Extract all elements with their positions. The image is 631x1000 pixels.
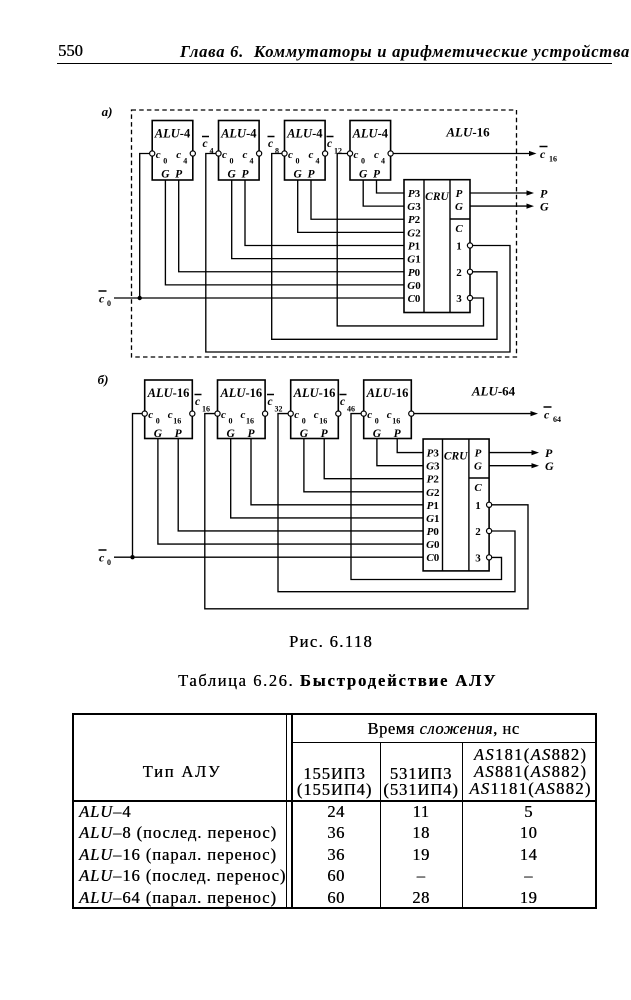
wire U4 G to U5 G3 [363, 180, 404, 206]
svg-text:c: c [222, 149, 227, 161]
node label c8 (inverted carry) [268, 137, 280, 156]
svg-text:ALU-4: ALU-4 [286, 127, 323, 141]
figure a label [102, 104, 113, 119]
svg-text:64: 64 [553, 415, 561, 424]
svg-text:c: c [176, 149, 181, 161]
pin circle c0 input of U1 [150, 151, 155, 156]
svg-text:3: 3 [475, 552, 481, 564]
wire U1 P to U5 P0 [179, 180, 404, 272]
svg-text:ALU-4: ALU-4 [220, 127, 257, 141]
svg-text:c: c [268, 138, 273, 150]
label ALU-64 [471, 384, 516, 399]
pin circle c16 output of U6 [190, 411, 195, 416]
pin label C0 of U5 [408, 293, 421, 305]
svg-text:2: 2 [475, 526, 481, 538]
pin circle c4 output of U4 [388, 151, 393, 156]
table double line 1 [286, 713, 288, 909]
pin label P2 of U5 [408, 214, 421, 226]
pin label G1 of U5 [407, 254, 420, 266]
svg-text:ALU-16: ALU-16 [366, 386, 409, 400]
separator line in U10 right strip [469, 477, 489, 479]
svg-text:0: 0 [361, 157, 365, 166]
label ALU-16 [445, 125, 490, 140]
wire U2 G to U5 G1 [232, 180, 404, 259]
svg-text:G: G [474, 461, 482, 473]
pin label C of U5 [455, 223, 463, 235]
table outer left border [72, 713, 74, 909]
ALU-16 block U9 [364, 380, 412, 440]
pin circle output 2 of U5 [467, 269, 472, 274]
pin label G output of U5 [455, 201, 463, 213]
svg-text:C0: C0 [426, 552, 439, 564]
pin label G1 of U10 [426, 513, 439, 525]
pin label G3 of U5 [407, 201, 421, 213]
pin label P0 of U5 [408, 267, 421, 279]
pin label G3 of U10 [426, 461, 440, 473]
node label c64 [544, 407, 562, 424]
svg-text:CRU: CRU [425, 191, 449, 203]
svg-text:0: 0 [156, 417, 160, 426]
table column line 3|4 [462, 742, 463, 909]
wire U8 P to U10 P2 [324, 439, 423, 479]
table cell: 531IP3 [380, 766, 462, 798]
svg-text:G: G [373, 428, 382, 440]
svg-text:32: 32 [275, 405, 283, 414]
svg-text:1: 1 [456, 241, 462, 253]
svg-text:c: c [221, 409, 226, 421]
svg-text:P0: P0 [427, 526, 440, 538]
svg-text:0: 0 [107, 299, 111, 308]
svg-text:P3: P3 [427, 448, 440, 460]
svg-text:c: c [156, 149, 161, 161]
pin label 2 of U10 [475, 526, 481, 538]
pin circle c0 input of U7 [215, 411, 220, 416]
pin label G2 of U5 [407, 227, 421, 239]
pin circle output 1 of U10 [487, 502, 492, 507]
svg-text:ALU-16: ALU-16 [293, 386, 336, 400]
wire c0 input line to U5 C0 [114, 297, 404, 299]
svg-text:P1: P1 [408, 241, 420, 253]
pin circle output 3 of U5 [467, 295, 472, 300]
svg-text:P: P [175, 428, 183, 440]
junction dot c0 node (fig b) [130, 555, 134, 559]
node label c32 (inverted carry) [267, 395, 283, 414]
wire U9 P to U10 P3 [397, 439, 423, 453]
wire U3 G to U5 G2 [298, 180, 404, 232]
svg-text:G: G [154, 428, 163, 440]
svg-text:G3: G3 [407, 201, 421, 213]
wire U1 c0 input from c0 line [140, 154, 150, 299]
ALU-4 block U1 [152, 121, 193, 181]
wire c0 input line to U10 C0 [114, 556, 423, 558]
wire U6 P to U10 P0 [178, 439, 423, 531]
svg-text:c: c [203, 138, 208, 150]
svg-text:3: 3 [456, 293, 462, 305]
pin circle c16 output of U7 [263, 411, 268, 416]
svg-text:P0: P0 [408, 267, 421, 279]
pin circle c16 output of U8 [336, 411, 341, 416]
pin label 1 of U10 [475, 500, 481, 512]
pin label P3 of U5 [408, 188, 421, 200]
svg-text:G1: G1 [407, 254, 420, 266]
pin label P2 of U10 [427, 474, 440, 486]
wire U1 G to U5 G0 [165, 180, 404, 285]
wire U6 G to U10 G0 [158, 439, 423, 545]
wire U8 G to U10 G2 [304, 439, 423, 492]
svg-text:c: c [309, 149, 314, 161]
svg-text:G: G [227, 428, 236, 440]
svg-text:c: c [374, 149, 379, 161]
svg-text:G0: G0 [407, 280, 421, 292]
svg-text:C: C [455, 223, 463, 235]
table row ALU-4 [79, 802, 284, 821]
pin circle c0 input of U9 [361, 411, 366, 416]
table caption [178, 671, 497, 691]
svg-text:4: 4 [250, 157, 254, 166]
op CRU carry-lookahead unit U5 [404, 180, 470, 313]
svg-text:G2: G2 [407, 227, 421, 239]
svg-text:C: C [474, 482, 482, 494]
svg-text:16: 16 [173, 417, 181, 426]
pin circle c16 output of U9 [409, 411, 414, 416]
svg-text:G0: G0 [426, 539, 440, 551]
pin label G output of U10 [474, 461, 482, 473]
svg-text:P1: P1 [427, 500, 439, 512]
wire U3 P to U5 P2 [311, 180, 404, 219]
svg-text:c: c [288, 149, 293, 161]
wire P output of U10 with arrow [489, 450, 539, 455]
svg-text:c: c [268, 396, 273, 408]
wire G output with arrow [470, 204, 534, 209]
svg-text:ALU-64: ALU-64 [471, 384, 516, 399]
wire U10 output 1 to U7 c0 [205, 414, 528, 609]
pin circle c0 input of U4 [347, 151, 352, 156]
svg-text:G: G [161, 169, 170, 181]
wire U10 output 3 to U9 c0 [351, 414, 502, 580]
svg-text:c: c [241, 409, 246, 421]
svg-text:16: 16 [392, 417, 400, 426]
svg-text:P: P [456, 188, 463, 200]
svg-text:c: c [314, 409, 319, 421]
svg-text:P: P [241, 169, 249, 181]
ALU-4 block U3 [285, 121, 326, 181]
svg-text:c: c [243, 149, 248, 161]
svg-text:P: P [373, 169, 381, 181]
svg-text:G: G [359, 169, 368, 181]
table cell: 155IP3 [286, 766, 383, 798]
pin circle c0 input of U8 [288, 411, 293, 416]
svg-text:CRU: CRU [444, 451, 468, 463]
svg-text:P: P [394, 428, 402, 440]
pin circle c4 output of U3 [323, 151, 328, 156]
node label c0 input [99, 291, 112, 308]
dashed boundary box ALU-16 [132, 110, 517, 357]
svg-text:2: 2 [456, 267, 462, 279]
pin label C of U10 [474, 482, 482, 494]
svg-text:P2: P2 [408, 214, 421, 226]
node label c12 (inverted carry) [327, 137, 343, 156]
svg-text:c: c [168, 409, 173, 421]
svg-text:c: c [99, 551, 105, 565]
table cell: Vremya slozheniya [292, 719, 595, 738]
pin label 1 of U5 [456, 241, 462, 253]
svg-text:c: c [99, 292, 105, 306]
pin label 3 of U5 [456, 293, 462, 305]
wire U4 P to U5 P3 [377, 180, 405, 193]
pin label 3 of U10 [475, 552, 481, 564]
pin circle c0 input of U2 [216, 151, 221, 156]
pin circle c4 output of U2 [257, 151, 262, 156]
node label c0 input (fig b) [99, 550, 112, 567]
wire c64 output with arrow [414, 411, 538, 416]
svg-text:0: 0 [163, 157, 167, 166]
svg-text:c: c [340, 396, 345, 408]
pin circle c0 input of U3 [282, 151, 287, 156]
node label G [540, 200, 549, 214]
junction dot c0 node [138, 296, 142, 300]
svg-text:G1: G1 [426, 513, 439, 525]
pin circle c4 output of U1 [190, 151, 195, 156]
pin label P0 of U10 [427, 526, 440, 538]
ALU-16 block U8 [291, 380, 339, 440]
running head rule [57, 63, 612, 65]
pin circle output 1 of U5 [467, 243, 472, 248]
node label c4 (inverted carry) [202, 137, 214, 156]
wire G output of U10 with arrow [489, 463, 539, 468]
svg-text:G: G [545, 459, 554, 473]
svg-text:0: 0 [229, 417, 233, 426]
running head page number [58, 41, 83, 61]
svg-text:P: P [307, 169, 315, 181]
svg-text:P: P [540, 187, 548, 201]
figure b label [98, 372, 109, 387]
table outer right border [595, 713, 597, 909]
wire U7 P to U10 P1 [251, 439, 423, 505]
table column line 2|3 [380, 742, 381, 909]
ALU-4 block U2 [219, 121, 260, 181]
wire U5 output 3 to U4 c0 [337, 154, 483, 326]
table double line 2 [291, 713, 293, 909]
svg-text:G2: G2 [426, 487, 440, 499]
svg-text:16: 16 [319, 417, 327, 426]
svg-text:G: G [300, 428, 309, 440]
pin label G0 of U10 [426, 539, 440, 551]
table row ALU-16 serial [79, 866, 284, 885]
pin label P1 of U10 [427, 500, 439, 512]
svg-text:G: G [228, 169, 237, 181]
svg-text:c: c [387, 409, 392, 421]
table outer bottom border [72, 907, 597, 909]
table cell: AS181 [464, 746, 597, 798]
wire U7 G to U10 G1 [231, 439, 423, 518]
svg-text:1: 1 [475, 500, 481, 512]
svg-text:4: 4 [381, 157, 385, 166]
svg-text:c: c [327, 138, 332, 150]
svg-text:c: c [540, 147, 546, 161]
op CRU carry-lookahead unit U10 [423, 439, 489, 571]
wire U9 G to U10 G3 [377, 439, 423, 466]
svg-text:c: c [354, 149, 359, 161]
svg-text:c: c [294, 409, 299, 421]
svg-text:16: 16 [549, 155, 557, 164]
node label c16 [540, 147, 558, 164]
ALU-16 block U6 [145, 380, 193, 440]
wire P output with arrow [470, 190, 534, 195]
svg-text:P2: P2 [427, 474, 440, 486]
svg-text:а): а) [102, 104, 113, 119]
wire c16 output with arrow [393, 151, 536, 156]
svg-text:c: c [148, 409, 153, 421]
svg-text:c: c [544, 408, 550, 422]
svg-text:0: 0 [107, 558, 111, 567]
wire U5 output 1 to U2 c0 [206, 154, 510, 353]
running head chapter title [180, 42, 630, 62]
node label G (fig b) [545, 459, 554, 473]
svg-text:4: 4 [183, 157, 187, 166]
svg-text:P: P [175, 169, 183, 181]
wire U5 output 2 to U3 c0 [272, 154, 497, 340]
svg-text:б): б) [98, 372, 109, 387]
wire U6 c0 input from c0 line [133, 414, 143, 558]
svg-text:c: c [195, 396, 200, 408]
svg-text:P: P [247, 428, 255, 440]
node label P (fig b) [545, 446, 553, 460]
svg-text:0: 0 [302, 417, 306, 426]
svg-text:P: P [545, 446, 553, 460]
svg-text:ALU-16: ALU-16 [147, 386, 190, 400]
node label c16 (inverted carry) [195, 395, 211, 414]
pin label 2 of U5 [456, 267, 462, 279]
wire U10 output 2 to U8 c0 [278, 414, 515, 592]
ALU-4 block U4 [350, 121, 391, 181]
pin label P3 of U10 [427, 448, 440, 460]
pin label G2 of U10 [426, 487, 440, 499]
pin circle output 3 of U10 [487, 555, 492, 560]
svg-text:c: c [367, 409, 372, 421]
pin circle c0 input of U6 [142, 411, 147, 416]
svg-text:G3: G3 [426, 461, 440, 473]
svg-text:ALU-16: ALU-16 [219, 386, 262, 400]
table outer top border [72, 713, 597, 715]
svg-text:4: 4 [316, 157, 320, 166]
svg-text:P: P [475, 448, 482, 460]
svg-text:16: 16 [202, 405, 210, 414]
svg-text:G: G [455, 201, 463, 213]
table row ALU-16 parallel [79, 845, 284, 864]
table row ALU-8 [79, 823, 284, 842]
svg-text:G: G [294, 169, 303, 181]
separator line in U5 right strip [450, 218, 470, 220]
svg-text:46: 46 [347, 405, 355, 414]
svg-text:16: 16 [246, 417, 254, 426]
svg-text:P3: P3 [408, 188, 421, 200]
node label c46 (inverted carry) [340, 395, 356, 414]
ALU-16 block U7 [218, 380, 266, 440]
svg-text:0: 0 [230, 157, 234, 166]
pin label P output of U5 [456, 188, 463, 200]
svg-text:0: 0 [375, 417, 379, 426]
svg-text:C0: C0 [408, 293, 421, 305]
table row ALU-64 [79, 888, 284, 907]
wire U2 P to U5 P1 [245, 180, 404, 246]
table cell: Tip ALU [75, 762, 289, 781]
pin label P1 of U5 [408, 241, 420, 253]
svg-text:ALU-4: ALU-4 [154, 127, 191, 141]
pin label G0 of U5 [407, 280, 421, 292]
figure caption Ris 6.118 [0, 632, 631, 652]
svg-text:0: 0 [296, 157, 300, 166]
pin circle output 2 of U10 [487, 528, 492, 533]
svg-text:P: P [321, 428, 329, 440]
table header bottom line [72, 800, 597, 802]
svg-text:ALU-4: ALU-4 [352, 127, 389, 141]
pin label P output of U10 [475, 448, 482, 460]
node label P [540, 187, 548, 201]
pin label C0 of U10 [426, 552, 439, 564]
svg-text:ALU-16: ALU-16 [445, 125, 490, 140]
svg-text:G: G [540, 200, 549, 214]
table line under span header [291, 742, 596, 744]
